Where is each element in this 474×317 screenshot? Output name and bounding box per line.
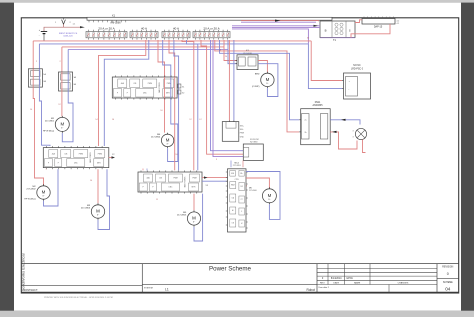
svg-text:REV.: REV.: [320, 282, 325, 284]
svg-text:USB: USB: [231, 173, 234, 175]
svg-text:PWM: PWM: [79, 153, 84, 155]
wire G2 to M4 blue: [163, 40, 178, 162]
wire drop CB1 blue: [38, 44, 40, 69]
svg-text:VB+: VB+: [240, 173, 243, 175]
svg-text:X2: X2: [182, 93, 184, 95]
circuit breaker CB1: [28, 69, 46, 87]
fuse group 20 A or 30 A: [86, 27, 127, 40]
wire through CB2: [61, 72, 63, 91]
svg-text:3: 3: [352, 137, 353, 139]
PDB C to DLC blue: [202, 180, 228, 182]
svg-text:217-0905: 217-0905: [177, 215, 187, 217]
wire K1 to M7 red: [258, 61, 267, 73]
svg-text:PWM: PWM: [148, 83, 153, 85]
wire G4 to K1 blue: [228, 40, 237, 64]
title block texts: [24, 266, 454, 292]
device DS11 AND3335: [299, 102, 330, 145]
bus wire red L1: [33, 40, 311, 42]
transformer T1: [320, 21, 355, 42]
svg-text:LRD-PSC 0: LRD-PSC 0: [351, 68, 364, 70]
connector Q4 DAP-15: [362, 17, 399, 29]
wire to U1 red: [311, 41, 342, 81]
wire DS11 right blue: [330, 120, 360, 125]
svg-text:217-0938: 217-0938: [243, 53, 252, 55]
svg-text:8/14/2014: 8/14/2014: [331, 277, 342, 280]
svg-text:SIG+: SIG+: [240, 125, 244, 127]
motor M5: [177, 210, 201, 226]
wire plug to battery: [44, 24, 64, 31]
wire DS11 right red: [330, 132, 357, 149]
svg-text:M: M: [96, 209, 100, 214]
contactor K1: [236, 50, 259, 70]
svg-text:F: F: [117, 92, 118, 94]
wire strip to T1 purple pair: [232, 25, 320, 27]
svg-text:217-0906: 217-0906: [249, 190, 257, 192]
wire G4 to MC red: [201, 40, 243, 154]
svg-text:(COMP): (COMP): [252, 86, 260, 88]
wire M1 blue loop: [62, 91, 73, 142]
fuse group 40 A: [162, 27, 190, 40]
svg-text:DB: DB: [232, 223, 234, 225]
svg-text:M: M: [192, 216, 196, 221]
svg-text:3: 3: [352, 131, 353, 133]
svg-text:2a: 2a: [305, 120, 307, 122]
svg-text:PWR: PWR: [240, 133, 245, 135]
svg-text:HP W (Max): HP W (Max): [24, 199, 36, 201]
wire G4 to K1 red: [224, 40, 237, 61]
svg-text:217-0903: 217-0903: [81, 208, 91, 210]
wire G2 to PB1 blue: [104, 40, 149, 146]
wire strip loop purple: [232, 29, 308, 44]
wire DLC to M6 red: [246, 178, 269, 188]
svg-text:PWM: PWM: [173, 178, 178, 180]
wire top bus to T1 purple: [241, 21, 316, 23]
PDB B side arrow X2: [109, 154, 116, 159]
svg-text:M: M: [42, 190, 46, 195]
svg-text:CHANGES: CHANGES: [398, 281, 409, 284]
wire MC to DLC stubs: [230, 161, 232, 168]
svg-text:PWM: PWM: [192, 178, 197, 180]
motor M2: [24, 184, 50, 200]
svg-text:B: B: [325, 29, 327, 33]
bus wire blue L2: [39, 43, 308, 45]
svg-text:20 A or 30 A: 20 A or 30 A: [98, 27, 114, 31]
X3 arrow: [204, 176, 209, 186]
svg-text:M: M: [60, 122, 64, 127]
motor M4: [151, 133, 174, 148]
wire CB1 blue to PB1: [39, 87, 50, 146]
wire G4 to radio blue: [233, 40, 235, 120]
svg-text:N2 GND: N2 GND: [250, 141, 258, 143]
circuit breaker CB2: [59, 72, 77, 91]
PDB C top stubs: [142, 169, 144, 171]
power distribution block C: [138, 170, 202, 193]
svg-text:PT: PT: [241, 199, 243, 201]
svg-text:HP W (Max): HP W (Max): [43, 130, 55, 132]
label FIRST ROBOTICS 0245-120: [59, 33, 78, 38]
device block DLC: [226, 162, 257, 232]
wire CB1 to M2 red: [33, 87, 43, 185]
wire G2 to M4 red: [158, 40, 165, 133]
wire CB2 to M1 red: [61, 91, 63, 117]
svg-text:F: F: [48, 162, 49, 164]
wire G4 to DS11 red: [215, 40, 299, 132]
svg-text:PRINTED WITH SOLIDWORKS ELECTR: PRINTED WITH SOLIDWORKS ELECTRICAL - GPN…: [44, 296, 113, 299]
PDB A side pins: [178, 84, 184, 95]
motor M3: [81, 203, 105, 219]
wire PB1 to M3: [97, 169, 99, 203]
svg-text:REVISION: REVISION: [442, 266, 453, 268]
PDB C to DLC red: [202, 177, 228, 179]
svg-text:2b: 2b: [305, 132, 307, 134]
motor M6: [262, 187, 276, 204]
svg-text:M: M: [266, 77, 270, 82]
wire through CB1: [32, 69, 34, 87]
wire to U1 blue: [308, 44, 342, 89]
wire drop CB2 blue: [67, 49, 69, 72]
wire M6 blue loop: [246, 172, 280, 220]
svg-text:F: F: [152, 187, 153, 189]
battery B1: [39, 30, 47, 41]
svg-text:0: 0: [447, 272, 449, 276]
svg-text:SYSTEM: SYSTEM: [144, 288, 153, 290]
svg-text:217-3351: 217-3351: [233, 165, 241, 167]
wire top bus to T1 red: [241, 20, 319, 23]
wire G4 to MC purple 2: [213, 40, 243, 157]
radio R1: [222, 120, 244, 141]
wire M3 blue loop: [98, 169, 110, 229]
svg-text:PWM: PWM: [98, 153, 103, 155]
wire bridge bottom: [363, 140, 366, 153]
svg-text:Robot: Robot: [306, 288, 315, 292]
svg-text:Power Scheme: Power Scheme: [209, 266, 252, 273]
svg-text:X1: X1: [182, 87, 184, 89]
svg-text:217-0902: 217-0902: [26, 189, 36, 191]
wire plug to fuse strip with arrow: [64, 26, 81, 28]
wire drop CB2 red: [61, 47, 63, 72]
fuse group 20 A or 30 A: [193, 27, 230, 40]
svg-text:User data 2: User data 2: [319, 286, 330, 289]
svg-text:M: M: [166, 138, 170, 143]
svg-text:L1: L1: [165, 287, 169, 291]
wire drop CB1 red: [32, 41, 34, 69]
wire M5 blue loop: [194, 194, 203, 241]
wire G3 to PDB C left red: [169, 40, 175, 170]
wire G3 to PDB C left blue: [174, 40, 179, 170]
svg-text:4.2: 4.2: [397, 21, 400, 23]
terminal strip X1: [87, 13, 332, 24]
diode bridge DS2: [352, 128, 366, 139]
plug J1: [55, 18, 76, 25]
device U1 ORD PSC: [342, 65, 371, 99]
svg-text:F: F: [241, 211, 242, 213]
svg-text:DATE: DATE: [333, 281, 339, 284]
svg-text:217-0901: 217-0901: [45, 120, 55, 122]
svg-text:4.1: 4.1: [397, 23, 400, 25]
power distribution block B: [43, 146, 109, 169]
svg-text:NAME: NAME: [354, 281, 361, 284]
svg-text:GND: GND: [240, 136, 245, 138]
svg-text:217-0904: 217-0904: [151, 136, 161, 138]
connector MC box: [243, 139, 263, 161]
wire G2 to PB1 red: [99, 40, 146, 146]
svg-text:SCHEME: SCHEME: [443, 282, 453, 284]
power distribution block A: [112, 75, 177, 99]
wires crossing PDB A: [164, 77, 166, 98]
wire T1 to Q4: [355, 20, 362, 23]
wire M2 blue loop: [44, 169, 59, 206]
svg-text:0245-120: 0245-120: [63, 36, 73, 38]
wire PDB C to M5: [193, 194, 195, 211]
svg-text:F: F: [127, 92, 128, 94]
svg-text:SIG-: SIG-: [240, 129, 244, 131]
wire G3 to PDB C right blue: [187, 40, 198, 170]
motor M7: [252, 72, 274, 88]
svg-text:AND3335: AND3335: [313, 104, 324, 107]
svg-text:CTRL: CTRL: [235, 179, 239, 181]
svg-text:SolidWorks Electrical: SolidWorks Electrical: [21, 253, 26, 291]
svg-text:F: F: [143, 187, 144, 189]
svg-text:X1: X1: [112, 13, 116, 17]
svg-text:FIRST ROBOTICS: FIRST ROBOTICS: [59, 33, 78, 35]
svg-text:20 A or 30 A: 20 A or 30 A: [203, 27, 219, 31]
svg-text:F: F: [58, 162, 59, 164]
motor M1: [43, 116, 69, 133]
wire Q4 to T1 bottom: [351, 24, 390, 38]
svg-text:GPN1: GPN1: [346, 277, 353, 280]
wire G4 to MC purple 1: [211, 40, 244, 151]
svg-text:NO NC: NO NC: [353, 65, 361, 67]
wire M7 blue loop: [258, 64, 278, 97]
wire G4 to radio red: [228, 40, 230, 120]
svg-text:BRD: BRD: [255, 73, 260, 75]
svg-text:DAP-15: DAP-15: [374, 26, 383, 29]
svg-text:M: M: [268, 193, 272, 198]
bus wire red L3: [62, 46, 224, 48]
title block: [21, 264, 458, 293]
fuse group 40 A: [130, 27, 158, 40]
sheet border frame: [21, 18, 458, 293]
wire G4 to DS11 blue: [220, 40, 300, 120]
svg-text:04: 04: [445, 287, 451, 292]
svg-text:CONTRACT:: CONTRACT:: [24, 289, 39, 292]
wire number labels: [30, 38, 310, 202]
svg-text:DS11: DS11: [315, 102, 321, 104]
bus wire purple L4: [68, 48, 228, 50]
wire G3 to PDB C right red: [182, 40, 194, 170]
